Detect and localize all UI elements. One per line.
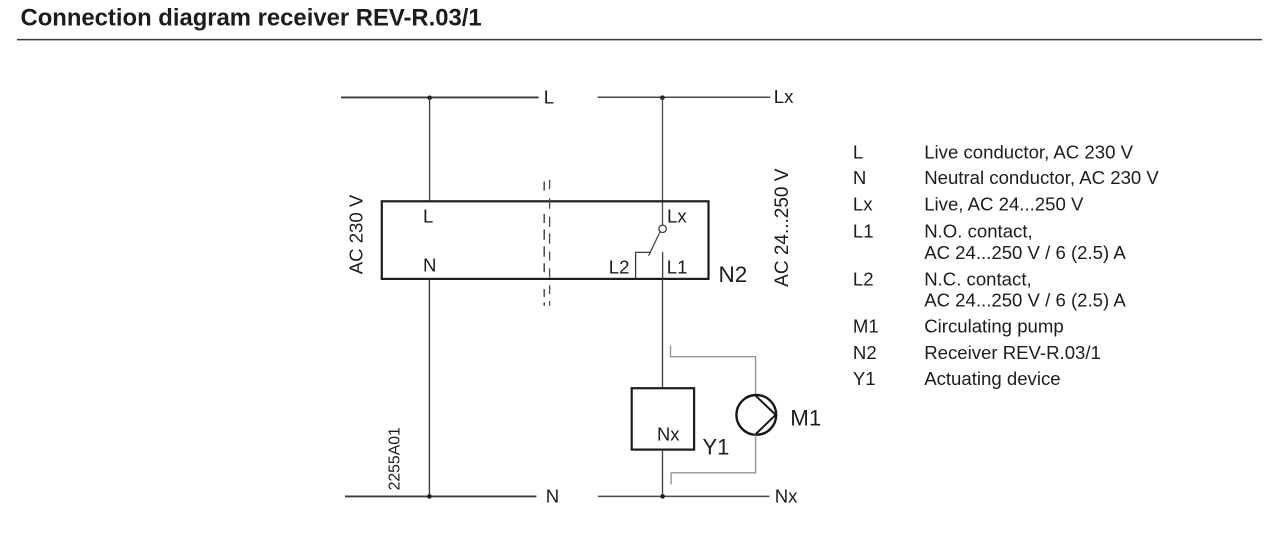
receiver N2 box xyxy=(382,201,709,279)
svg-text:Live, AC 24...250 V: Live, AC 24...250 V xyxy=(924,194,1084,215)
wire Nx bottom horizontal xyxy=(598,495,770,497)
svg-text:AC 24...250 V: AC 24...250 V xyxy=(772,168,793,287)
wire L top horizontal xyxy=(341,96,539,98)
svg-text:Live conductor, AC 230 V: Live conductor, AC 230 V xyxy=(924,142,1133,163)
switch contact circle Lx xyxy=(659,225,666,232)
svg-text:Circulating pump: Circulating pump xyxy=(924,316,1064,337)
wire vertical from Lx junction to switch contact xyxy=(662,97,664,224)
svg-text:L1: L1 xyxy=(667,257,688,278)
svg-text:N: N xyxy=(546,485,559,506)
svg-text:Lx: Lx xyxy=(774,86,794,107)
svg-text:Lx: Lx xyxy=(853,194,873,215)
node junction dot on Lx wire xyxy=(660,95,665,100)
switch lever arm xyxy=(649,232,660,256)
svg-text:N2: N2 xyxy=(719,262,748,287)
wire vertical left N from box to bottom xyxy=(428,279,430,497)
actuator Y1 box xyxy=(632,388,694,449)
svg-text:Y1: Y1 xyxy=(703,435,730,460)
wire pump branch lower (gray) xyxy=(671,435,756,485)
wire pump branch upper (gray) xyxy=(671,346,756,396)
svg-text:M1: M1 xyxy=(853,316,879,337)
pump M1 circle xyxy=(736,395,776,435)
pin L2 elbow wire xyxy=(636,252,651,279)
dashed separation line left xyxy=(543,182,545,306)
wire vertical from Y1 box to Nx wire xyxy=(662,450,664,497)
svg-text:AC 24...250 V / 6 (2.5) A: AC 24...250 V / 6 (2.5) A xyxy=(924,290,1126,311)
svg-text:L1: L1 xyxy=(853,221,874,242)
wire vertical from L junction to receiver box xyxy=(429,97,431,201)
dashed separation line right xyxy=(549,180,551,306)
svg-text:Lx: Lx xyxy=(667,206,687,227)
svg-text:N.C. contact,: N.C. contact, xyxy=(924,268,1031,289)
svg-text:M1: M1 xyxy=(790,405,821,430)
svg-text:N: N xyxy=(423,255,436,276)
svg-text:L: L xyxy=(853,142,863,163)
pin L1 stub wire xyxy=(662,252,664,279)
svg-text:Actuating device: Actuating device xyxy=(924,368,1060,389)
svg-text:Nx: Nx xyxy=(657,423,679,444)
svg-text:L: L xyxy=(544,87,554,108)
title underline rule xyxy=(17,39,1262,41)
svg-text:L2: L2 xyxy=(609,257,630,278)
svg-text:Receiver REV-R.03/1: Receiver REV-R.03/1 xyxy=(924,342,1101,363)
wire Lx top horizontal xyxy=(598,96,771,98)
wire N bottom horizontal xyxy=(345,495,536,497)
svg-text:AC 24...250 V / 6 (2.5) A: AC 24...250 V / 6 (2.5) A xyxy=(924,242,1126,263)
svg-text:Nx: Nx xyxy=(775,485,798,506)
svg-text:AC 230 V: AC 230 V xyxy=(346,194,367,274)
svg-text:Neutral conductor, AC 230 V: Neutral conductor, AC 230 V xyxy=(924,167,1159,188)
pump M1 triangle xyxy=(756,396,776,434)
node junction dot on L wire xyxy=(427,96,432,101)
svg-text:Y1: Y1 xyxy=(853,368,876,389)
svg-text:N: N xyxy=(853,167,866,188)
svg-text:L2: L2 xyxy=(853,268,874,289)
svg-text:2255A01: 2255A01 xyxy=(387,427,404,490)
svg-text:L: L xyxy=(423,206,433,227)
svg-text:N.O. contact,: N.O. contact, xyxy=(924,221,1033,242)
node junction dot on N wire xyxy=(427,494,432,499)
wire vertical L1 to actuator box xyxy=(662,279,664,388)
svg-text:N2: N2 xyxy=(853,342,877,363)
svg-text:Connection diagram receiver RE: Connection diagram receiver REV-R.03/1 xyxy=(21,5,482,32)
node junction dot on Nx wire xyxy=(660,494,665,499)
